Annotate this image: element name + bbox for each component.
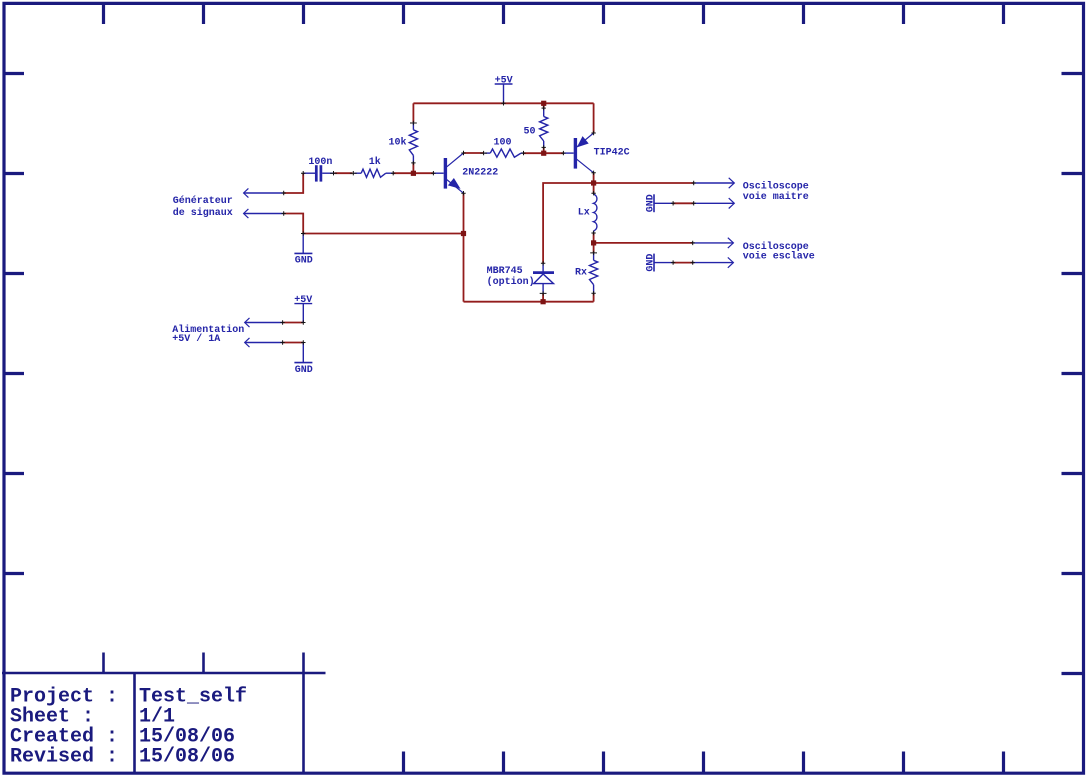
ground GND (osciloscope esclave) bbox=[645, 254, 673, 272]
power +5V (top rail) bbox=[495, 75, 513, 103]
svg-text:de signaux: de signaux bbox=[173, 207, 233, 219]
pin endpoint markers bbox=[280, 101, 696, 345]
svg-text:15/08/06: 15/08/06 bbox=[139, 746, 235, 769]
svg-text:100n: 100n bbox=[308, 157, 332, 168]
wire R 50 bottom bbox=[543, 147, 545, 153]
wire D1 anode to bottom rail bbox=[542, 294, 544, 302]
svg-text:1k: 1k bbox=[369, 156, 381, 168]
wire GND to osciloscope esclave ground bbox=[673, 262, 694, 264]
wire C1 to R 1k bbox=[335, 172, 353, 174]
connector arrow alimentation GND bbox=[245, 338, 283, 347]
wire Rx bottom to rail bbox=[593, 293, 595, 302]
resistor Rx bbox=[575, 253, 598, 294]
node Q2 base junction bbox=[541, 151, 546, 156]
ground GND (osciloscope maitre) bbox=[645, 194, 673, 212]
transistor TIP42C PNP bbox=[563, 133, 629, 173]
label Generateur de signaux bbox=[173, 195, 233, 219]
node base divider junction bbox=[411, 171, 416, 176]
wire 1k to Q1 base / node B bbox=[393, 172, 433, 174]
label Alimentation +5V / 1A bbox=[172, 324, 244, 345]
ground GND (generator) bbox=[294, 234, 312, 267]
wire rail to 10k top bbox=[412, 103, 414, 122]
svg-text:Rx: Rx bbox=[575, 268, 587, 279]
ground GND (alimentation) bbox=[294, 343, 312, 376]
wire +5V rail bbox=[413, 102, 593, 104]
svg-text:2N2222: 2N2222 bbox=[462, 167, 498, 178]
connector arrow osciloscope esclave ground bbox=[693, 257, 734, 267]
svg-text:TIP42C: TIP42C bbox=[594, 147, 630, 158]
wire Q1 emitter down to bottom rail bbox=[463, 193, 465, 302]
node +5V rail junction bbox=[541, 101, 546, 106]
svg-text:Revised :: Revised : bbox=[10, 746, 118, 769]
wire 10k bottom to base node bbox=[412, 163, 414, 173]
node emitter junction bbox=[461, 231, 466, 236]
transistor 2N2222 NPN bbox=[433, 153, 498, 193]
svg-text:100: 100 bbox=[494, 138, 512, 149]
svg-text:50: 50 bbox=[524, 127, 536, 138]
diode MBR745 (option) bbox=[487, 263, 554, 294]
label Osciloscope voie maitre bbox=[743, 181, 809, 203]
svg-text:GND: GND bbox=[295, 256, 313, 267]
wire generator pin 2 to emitter net bbox=[284, 214, 464, 234]
resistor 50 bbox=[524, 108, 548, 147]
label Osciloscope voie esclave bbox=[743, 241, 815, 263]
svg-text:GND: GND bbox=[645, 194, 656, 212]
svg-text:voie esclave: voie esclave bbox=[743, 251, 815, 263]
connector arrow osciloscope maitre signal bbox=[694, 178, 735, 188]
wire rail to Q2 emitter bbox=[593, 103, 595, 133]
svg-text:MBR745: MBR745 bbox=[487, 266, 523, 277]
node Q2 collector junction bbox=[591, 180, 596, 185]
wire rail to R 50 top bbox=[543, 103, 545, 108]
svg-text:GND: GND bbox=[295, 365, 313, 376]
capacitor 100n bbox=[303, 157, 334, 182]
connector arrow alimentation +5V bbox=[245, 318, 283, 327]
resistor 100 bbox=[485, 138, 524, 158]
wire GND supply input bbox=[283, 342, 304, 344]
connector arrow generator pin 1 bbox=[244, 188, 284, 197]
svg-text:(option): (option) bbox=[487, 276, 535, 288]
connector arrow osciloscope maitre ground bbox=[694, 198, 735, 208]
svg-text:Générateur: Générateur bbox=[173, 195, 233, 207]
resistor 1k bbox=[354, 156, 393, 177]
svg-text:Lx: Lx bbox=[578, 208, 590, 219]
svg-text:Osciloscope: Osciloscope bbox=[743, 181, 809, 193]
svg-text:GND: GND bbox=[645, 254, 656, 272]
wire D1 cathode up and to osciloscope maitre bbox=[543, 183, 694, 263]
wire Q2 collector to Lx top bbox=[593, 173, 595, 193]
connector arrow osciloscope esclave signal bbox=[693, 238, 734, 248]
svg-text:10k: 10k bbox=[389, 136, 407, 148]
connector arrow generator pin 2 bbox=[244, 209, 284, 218]
resistor 10k bbox=[389, 122, 418, 163]
wire Q1 collector to R 100 bbox=[464, 152, 484, 154]
wire bottom rail bbox=[464, 301, 594, 303]
node Lx-Rx junction bbox=[591, 240, 596, 245]
wire +5V supply input bbox=[283, 322, 304, 324]
node bottom rail junction bbox=[541, 299, 546, 304]
svg-text:+5V / 1A: +5V / 1A bbox=[172, 333, 220, 345]
wire C1 left to generator pin 1 bbox=[284, 173, 304, 193]
wire node to osciloscope esclave bbox=[594, 242, 693, 244]
wire R 100 to Q2 base bbox=[524, 152, 564, 154]
power +5V (alimentation) bbox=[294, 295, 312, 323]
inductor Lx bbox=[578, 193, 597, 233]
wire Lx bottom to Rx top bbox=[593, 233, 595, 253]
svg-text:voie maitre: voie maitre bbox=[743, 191, 809, 203]
wire GND to osciloscope maitre ground bbox=[673, 202, 694, 204]
